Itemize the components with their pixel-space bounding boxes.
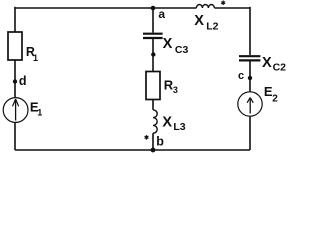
svg-text:L3: L3 [173,121,185,133]
svg-text:L2: L2 [206,21,218,33]
svg-text:X: X [162,115,172,131]
svg-text:X: X [163,36,173,52]
svg-text:c: c [238,70,244,82]
svg-text:2: 2 [272,93,278,104]
svg-text:C2: C2 [273,62,287,74]
svg-text:1: 1 [33,53,38,63]
svg-text:C3: C3 [175,44,189,56]
svg-text:1: 1 [37,107,42,117]
svg-text:X: X [262,55,272,71]
svg-text:a: a [158,7,165,21]
svg-text:X: X [194,13,204,29]
svg-text:3: 3 [173,85,178,95]
svg-text:d: d [19,74,27,88]
svg-text:b: b [156,135,164,149]
